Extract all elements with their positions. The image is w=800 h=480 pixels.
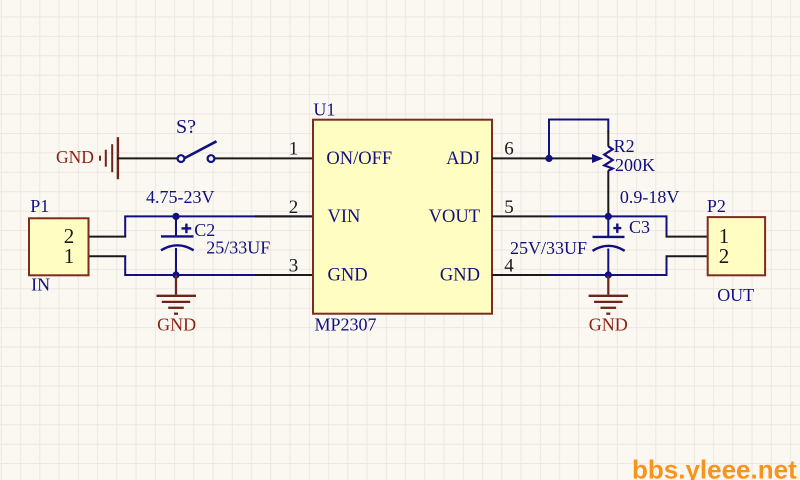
wire P1 pin1 stub — [89, 255, 127, 257]
op-amp U1 body MP2307 — [313, 120, 492, 314]
wire VOUT to P2 pin1 — [608, 216, 666, 236]
wire VIN rail (P1 to U1 pin 2) — [124, 215, 313, 217]
svg-text:GND: GND — [589, 314, 628, 334]
capacitor C2 — [161, 216, 194, 275]
arrow head to R2 — [592, 154, 603, 163]
svg-text:25/33UF: 25/33UF — [206, 238, 270, 258]
wire riser P1 pin1 to GND rail — [124, 256, 126, 275]
svg-text:1: 1 — [64, 244, 75, 268]
ground earth below C3 — [589, 275, 629, 314]
svg-text:P1: P1 — [30, 196, 49, 216]
svg-text:GND: GND — [56, 147, 94, 167]
svg-text:P2: P2 — [707, 196, 726, 216]
wire arrow shaft (ADJ wiper) — [549, 157, 593, 159]
svg-text:ON/OFF: ON/OFF — [326, 149, 392, 169]
svg-text:VOUT: VOUT — [429, 207, 480, 227]
switch S? — [178, 141, 217, 162]
wire P2 pin2 stub — [666, 255, 708, 257]
wire riser P1 pin2 to VIN rail — [124, 216, 126, 236]
node junction C2 top — [172, 213, 179, 220]
pin U1.6 stub — [492, 157, 549, 159]
resistor R2 — [604, 146, 613, 170]
svg-text:25V/33UF: 25V/33UF — [510, 238, 587, 258]
svg-text:OUT: OUT — [717, 285, 754, 305]
ground GND power-port (left, vertical bars) — [100, 137, 118, 179]
wire GND row to C3 bottom junction — [549, 274, 608, 276]
svg-text:6: 6 — [504, 139, 514, 160]
svg-text:U1: U1 — [313, 100, 335, 120]
wire R2 top lead — [607, 131, 609, 147]
wire R2 bottom to VOUT junction — [607, 171, 609, 217]
svg-text:GND: GND — [157, 314, 196, 334]
svg-text:C3: C3 — [629, 217, 650, 237]
wire VOUT row to C3 junction — [549, 215, 608, 217]
svg-text:VIN: VIN — [328, 207, 361, 227]
svg-text:2: 2 — [719, 244, 730, 268]
connector P2 — [708, 217, 765, 275]
svg-text:GND: GND — [440, 266, 480, 286]
svg-text:bbs.yleee.net: bbs.yleee.net — [632, 455, 797, 480]
pin U1.3 stub — [255, 274, 313, 276]
ground earth below C2 — [157, 275, 197, 314]
wire GND rail (P1 to U1 pin 3) — [124, 274, 313, 276]
svg-text:0.9-18V: 0.9-18V — [620, 187, 680, 207]
wire P2 pin1 stub — [666, 236, 708, 238]
pin U1.2 stub — [255, 215, 313, 217]
svg-text:1: 1 — [289, 139, 299, 160]
wire switch S? throw to U1 pin 1 — [214, 157, 313, 159]
pin U1.5 stub — [492, 215, 549, 217]
wire feedback loop above R2 — [549, 120, 608, 159]
svg-text:S?: S? — [176, 116, 196, 138]
capacitor C3 — [593, 216, 625, 275]
node junction C3 bottom — [605, 271, 612, 278]
svg-text:4: 4 — [504, 255, 514, 276]
svg-text:2: 2 — [289, 197, 299, 218]
svg-text:5: 5 — [504, 197, 514, 218]
node junction C2 bottom — [172, 271, 179, 278]
pin U1.4 stub — [492, 274, 549, 276]
svg-text:MP2307: MP2307 — [315, 315, 377, 335]
wire P1 pin2 stub — [89, 236, 127, 238]
wire GND to P2 pin2 — [608, 256, 666, 275]
svg-text:ADJ: ADJ — [446, 149, 480, 169]
svg-text:IN: IN — [31, 274, 50, 294]
svg-text:4.75-23V: 4.75-23V — [146, 187, 215, 207]
node junction ADJ — [545, 155, 552, 162]
svg-text:GND: GND — [328, 266, 368, 286]
svg-text:200K: 200K — [615, 155, 655, 175]
connector P1 — [29, 218, 89, 275]
svg-text:R2: R2 — [614, 136, 635, 156]
wire GND bars to switch S? pole — [117, 157, 178, 159]
node junction C3 top — [605, 213, 612, 220]
svg-text:3: 3 — [289, 255, 299, 276]
